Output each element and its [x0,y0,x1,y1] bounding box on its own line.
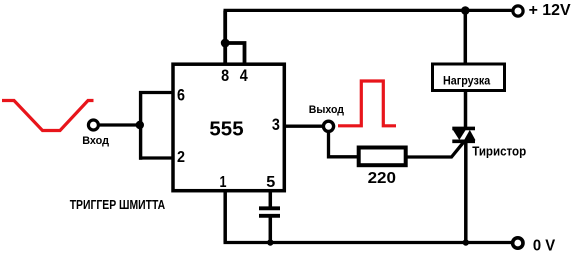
resistor R1 body [359,148,406,166]
wire input terminal to node A [100,123,142,126]
thyristor left triangle (down) [453,130,466,140]
svg-text:+ 12V: + 12V [529,2,572,19]
capacitor C1 stem from pin 5 [269,190,273,207]
wire pin 1 down to 0V rail [223,190,227,243]
wire pin 3 to output terminal [285,124,323,127]
terminal: Вход input [88,120,98,130]
wire pin 4 branch [225,43,244,64]
wire rail down to load [464,11,468,64]
IC U1 555 body [173,64,284,191]
junction capacitor/0V rail [267,239,273,245]
svg-text:Вход: Вход [82,135,109,147]
svg-text:Тиристор: Тиристор [472,145,526,159]
terminal Выход output [323,121,333,131]
junction thyristor/0V rail [463,239,469,245]
capacitor C1 stem to rail [269,217,273,243]
svg-text:2: 2 [177,149,185,166]
wire resistor to thyristor gate [405,142,464,157]
capacitor C1 bottom plate [259,214,280,218]
svg-text:5: 5 [266,174,275,191]
svg-text:ТРИГГЕР ШМИТТА: ТРИГГЕР ШМИТТА [70,197,166,212]
svg-text:0 V: 0 V [533,238,556,255]
wire pin 8 up to +12V rail [223,11,227,65]
thyristor right triangle (up) [464,130,476,140]
junction rail/load branch [461,6,470,15]
wire to pin 2 [139,156,173,159]
wire to pin 6 [139,91,173,94]
svg-text:1: 1 [220,174,227,191]
junction node A [136,121,144,129]
svg-text:220: 220 [368,170,396,187]
wire input bracket vertical [139,91,142,160]
svg-text:3: 3 [272,115,280,134]
output waveform (red pulse) [338,81,396,126]
terminal 0V [513,238,523,248]
svg-text:Нагрузка: Нагрузка [443,74,490,88]
svg-text:6: 6 [177,86,185,105]
wire output terminal down to resistor [329,131,359,157]
svg-text:4: 4 [240,66,248,85]
capacitor C1 top plate [259,206,280,210]
wire +12V top rail [224,9,512,12]
thyristor VS1 (triac symbol) top bar [452,127,475,131]
wire 0V bottom rail [224,241,512,244]
terminal +12V [513,6,523,16]
svg-text:Выход: Выход [309,104,344,116]
wire load to thyristor [464,91,468,129]
wire thyristor to 0V rail [464,140,468,243]
thyristor bottom bar [452,140,475,144]
svg-text:8: 8 [221,66,229,85]
input waveform (red trapezoid dip) [2,101,94,131]
load box Нагрузка [433,64,505,91]
junction pin8/pin4 branch [221,39,230,48]
svg-text:555: 555 [209,117,243,140]
